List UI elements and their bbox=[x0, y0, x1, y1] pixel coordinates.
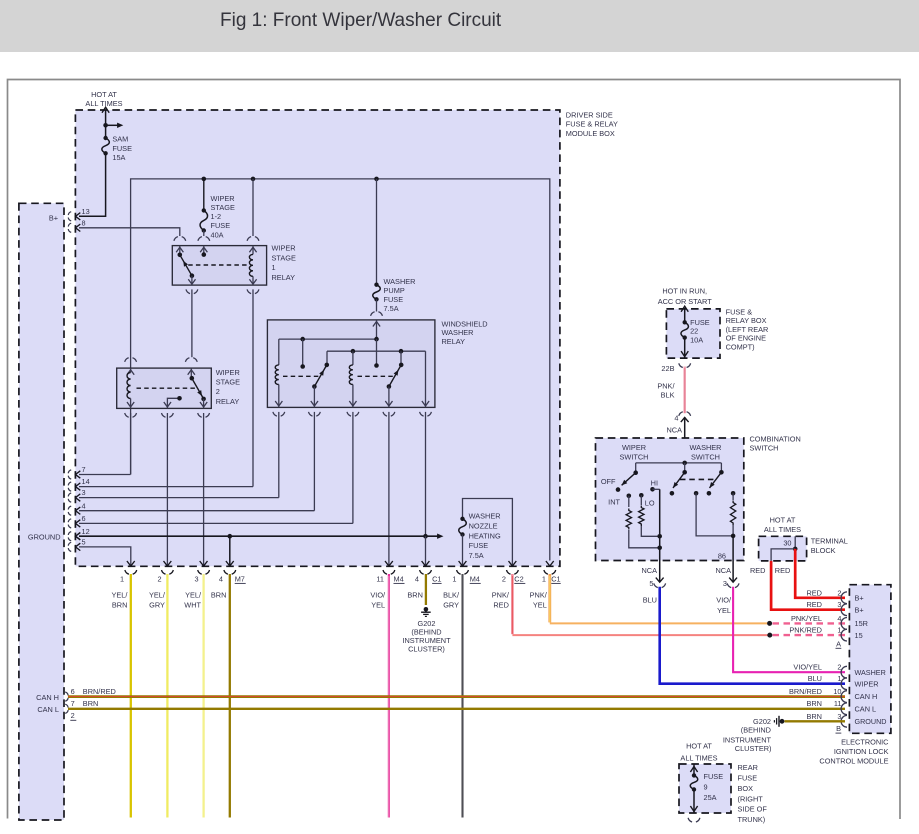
svg-text:HOT AT: HOT AT bbox=[770, 516, 796, 525]
fuse SAM FUSE 15A bbox=[102, 138, 110, 153]
washer gang dashed link bbox=[680, 478, 717, 480]
wire LO resistor to junction bbox=[641, 526, 659, 536]
connector arc pin 8 bbox=[68, 223, 71, 232]
svg-text:BLU: BLU bbox=[643, 595, 657, 604]
washer switch output wire bbox=[732, 536, 734, 561]
washer relay coil 1 bbox=[278, 339, 280, 365]
washer nozzle heating fuse bracket bbox=[463, 499, 513, 567]
svg-text:5: 5 bbox=[649, 579, 653, 588]
svg-text:PNK/RED: PNK/RED bbox=[789, 626, 822, 635]
relay1 pin A lead bbox=[179, 246, 181, 255]
terminal block internal wiring bbox=[794, 536, 796, 549]
svg-text:4: 4 bbox=[219, 575, 223, 584]
relay1 coil lead out arrow bbox=[249, 279, 256, 284]
svg-text:REAR: REAR bbox=[738, 763, 758, 772]
svg-text:(BEHIND: (BEHIND bbox=[741, 726, 771, 735]
svg-text:WINDSHIELD: WINDSHIELD bbox=[442, 319, 488, 328]
wire BRN to G202 bbox=[425, 574, 427, 605]
svg-text:CAN H: CAN H bbox=[855, 692, 878, 701]
electronic ignition lock control module box bbox=[849, 585, 891, 734]
connector arc pin 6 bbox=[68, 519, 71, 528]
svg-text:GRY: GRY bbox=[149, 601, 165, 610]
connector arc relay2 pole out bbox=[198, 413, 210, 417]
wire BLK/GRY (pin 1 M4) bbox=[461, 574, 463, 818]
connector arc pin 13 bbox=[68, 212, 71, 221]
svg-text:OF ENGINE: OF ENGINE bbox=[726, 334, 766, 343]
junction dot PNK/RED bbox=[767, 633, 772, 638]
svg-text:2: 2 bbox=[216, 387, 220, 396]
svg-text:G202: G202 bbox=[753, 717, 771, 726]
svg-text:M4: M4 bbox=[470, 575, 480, 584]
svg-text:86: 86 bbox=[718, 552, 726, 561]
svg-text:C2: C2 bbox=[514, 575, 523, 584]
svg-text:7: 7 bbox=[71, 699, 75, 708]
connector arc rear fuse box out bbox=[688, 818, 700, 822]
svg-text:YEL/: YEL/ bbox=[111, 590, 128, 599]
svg-text:SWITCH: SWITCH bbox=[691, 452, 720, 461]
svg-text:11: 11 bbox=[376, 575, 384, 584]
wire: top bus bbox=[131, 179, 550, 561]
wire: pin 3 row bbox=[79, 497, 279, 499]
svg-text:RELAY: RELAY bbox=[216, 397, 240, 406]
svg-text:WASHER: WASHER bbox=[442, 328, 474, 337]
driver side fuse & relay module box bbox=[75, 110, 560, 566]
washer relay coil 2 bbox=[352, 351, 354, 365]
svg-text:YEL/: YEL/ bbox=[185, 590, 202, 599]
module connector arcs bbox=[841, 592, 847, 604]
relay box WINDSHIELD WASHER RELAY bbox=[267, 320, 435, 408]
svg-text:4: 4 bbox=[837, 614, 841, 623]
svg-text:7.5A: 7.5A bbox=[384, 304, 399, 313]
wire YEL/BRN (pin 1) bbox=[130, 574, 132, 818]
junction dot on SAM feed bbox=[103, 123, 108, 128]
washer armature 2 bbox=[710, 472, 722, 488]
svg-text:PUMP: PUMP bbox=[384, 286, 405, 295]
arrowhead pin 4 bbox=[76, 507, 81, 514]
svg-text:BOX: BOX bbox=[738, 784, 754, 793]
terminal block box bbox=[759, 536, 807, 561]
svg-text:3: 3 bbox=[194, 575, 198, 584]
svg-text:WASHER: WASHER bbox=[469, 512, 501, 521]
wiper switch output wire bbox=[659, 489, 661, 560]
wire: pin 5 row to bottom pin 1 bbox=[79, 547, 131, 566]
svg-text:10: 10 bbox=[833, 687, 841, 696]
continuation arrow pin 12 row bbox=[437, 534, 443, 539]
relay2 pole lead out bbox=[203, 399, 205, 409]
junction dot stub on rail bbox=[300, 337, 305, 342]
svg-text:2: 2 bbox=[502, 575, 506, 584]
washer relay switch2 pole dot bbox=[387, 384, 392, 389]
washer contact dot middle bbox=[694, 491, 699, 496]
fuse WASHER PUMP FUSE 7.5A bbox=[373, 285, 381, 300]
washer relay feed rail upper bbox=[279, 338, 377, 340]
svg-text:NCA: NCA bbox=[666, 425, 682, 434]
wire resistor to output junction bbox=[732, 525, 734, 536]
svg-text:CLUSTER): CLUSTER) bbox=[408, 644, 445, 653]
svg-text:TRUNK): TRUNK) bbox=[738, 815, 766, 824]
svg-text:DRIVER SIDE: DRIVER SIDE bbox=[566, 111, 613, 120]
svg-text:FUSE &: FUSE & bbox=[726, 307, 753, 316]
svg-text:VIO/YEL: VIO/YEL bbox=[793, 663, 822, 672]
relay2 switch common dot bbox=[190, 376, 195, 381]
svg-text:RELAY: RELAY bbox=[442, 337, 466, 346]
svg-text:FUSE & RELAY: FUSE & RELAY bbox=[566, 120, 618, 129]
svg-text:BLK: BLK bbox=[661, 391, 675, 400]
svg-text:BRN: BRN bbox=[407, 590, 423, 599]
svg-text:3: 3 bbox=[82, 488, 86, 497]
connector arc relay2 middle out bbox=[162, 413, 174, 417]
fuse 9 lead in bbox=[693, 764, 695, 775]
wiper INT contact bbox=[627, 494, 632, 499]
junction dot feed/washer switch bbox=[682, 461, 687, 466]
center fixed contact bbox=[376, 339, 378, 365]
junction dot bus/fuse40A bbox=[202, 177, 207, 182]
svg-text:M4: M4 bbox=[394, 575, 404, 584]
fuse FUSE 9 25A bbox=[690, 775, 698, 789]
wire CAN H BRN/RED bbox=[68, 695, 845, 698]
svg-text:8: 8 bbox=[82, 218, 86, 227]
svg-text:C1: C1 bbox=[551, 575, 560, 584]
relay1 pin B lead bbox=[203, 246, 205, 255]
wire: washer relay pole2 to bottom pin 11 bbox=[388, 412, 390, 566]
svg-text:STAGE: STAGE bbox=[216, 378, 240, 387]
svg-text:ALL TIMES: ALL TIMES bbox=[85, 99, 122, 108]
connector arc relay2 coil out bbox=[125, 413, 137, 417]
svg-text:7.5A: 7.5A bbox=[469, 551, 484, 560]
wire: pin 6 row bbox=[79, 522, 353, 524]
washer relay switch2 pole out bbox=[388, 387, 390, 408]
svg-text:ACC OR START: ACC OR START bbox=[658, 297, 713, 306]
wire NCA into combination switch bbox=[684, 417, 686, 463]
svg-text:CAN L: CAN L bbox=[37, 705, 59, 714]
svg-text:CAN H: CAN H bbox=[36, 693, 59, 702]
svg-text:A: A bbox=[836, 639, 841, 648]
svg-text:BRN: BRN bbox=[806, 712, 822, 721]
junction dot INT output bbox=[657, 546, 662, 551]
wire: washer relay aux to pin 12 row bbox=[425, 412, 427, 536]
fuse WIPER STAGE 1-2 FUSE 40A bbox=[200, 210, 208, 230]
wire: washer relay coil2 to pin 6 row bbox=[352, 412, 354, 524]
svg-text:BRN/RED: BRN/RED bbox=[83, 687, 116, 696]
svg-text:HEATING: HEATING bbox=[469, 531, 501, 540]
wire: bus to wiper stage 1-2 fuse bbox=[203, 179, 205, 211]
wire: relay1 pole to wiper stage 2 relay bbox=[191, 289, 193, 357]
junction dot top pin/rail bbox=[374, 337, 379, 342]
svg-text:1: 1 bbox=[837, 626, 841, 635]
svg-text:WIPER: WIPER bbox=[622, 443, 646, 452]
svg-text:COMPT): COMPT) bbox=[726, 342, 755, 351]
svg-text:SIDE OF: SIDE OF bbox=[738, 805, 768, 814]
svg-text:25A: 25A bbox=[704, 793, 717, 802]
svg-text:15R: 15R bbox=[855, 619, 868, 628]
svg-text:YEL: YEL bbox=[533, 601, 547, 610]
rear fuse box bbox=[679, 764, 731, 813]
wire: fuse to washer relay bbox=[376, 299, 378, 311]
wire: pin 7 row bbox=[79, 474, 131, 476]
relay1 coil bbox=[252, 246, 254, 255]
svg-text:IGNITION LOCK: IGNITION LOCK bbox=[834, 747, 889, 756]
relay box WIPER STAGE 1 RELAY bbox=[172, 246, 266, 286]
svg-text:CAN L: CAN L bbox=[855, 705, 877, 714]
svg-text:YEL: YEL bbox=[717, 606, 731, 615]
bottom edge connector arcs bbox=[125, 570, 137, 574]
svg-text:YEL/: YEL/ bbox=[149, 590, 166, 599]
svg-text:1: 1 bbox=[120, 575, 124, 584]
washer relay switch2 feed bbox=[400, 351, 402, 365]
svg-text:SWITCH: SWITCH bbox=[750, 444, 779, 453]
svg-text:RELAY: RELAY bbox=[272, 273, 296, 282]
junction dot LO output bbox=[657, 534, 662, 539]
svg-text:HOT AT: HOT AT bbox=[91, 90, 117, 99]
svg-text:B: B bbox=[836, 724, 841, 733]
wire: pin 4 row bbox=[79, 510, 314, 512]
wire BRN (pin 4 M7) bbox=[229, 574, 231, 818]
svg-text:9: 9 bbox=[704, 783, 708, 792]
svg-text:SAM: SAM bbox=[112, 135, 128, 144]
relay2 pole dot bbox=[201, 397, 206, 402]
svg-text:SWITCH: SWITCH bbox=[620, 452, 649, 461]
wire: relay2 middle out to bottom pin 2 bbox=[166, 413, 168, 566]
svg-text:YEL: YEL bbox=[371, 601, 385, 610]
wire BRN module ground pin 3 bbox=[785, 720, 846, 722]
svg-text:40A: 40A bbox=[211, 230, 224, 239]
svg-text:LO: LO bbox=[645, 499, 655, 508]
svg-text:BRN: BRN bbox=[806, 699, 822, 708]
wire: pin 12 row (bold) bbox=[79, 535, 439, 537]
svg-text:WIPER: WIPER bbox=[216, 368, 240, 377]
svg-text:RED: RED bbox=[493, 601, 509, 610]
arrowhead pin 12 bbox=[76, 533, 81, 540]
combination switch box bbox=[596, 438, 744, 561]
connector arc pin 4 bbox=[68, 506, 71, 515]
svg-text:OFF: OFF bbox=[601, 477, 616, 486]
left connector module box (B+/GROUND/CAN) bbox=[19, 203, 64, 820]
wiper output lead to connector bbox=[659, 561, 661, 582]
wire: fuse to bottom pin 1 M4 bbox=[462, 535, 464, 567]
svg-text:RED: RED bbox=[806, 588, 822, 597]
svg-text:30: 30 bbox=[783, 539, 791, 548]
svg-text:WHT: WHT bbox=[184, 601, 201, 610]
branch arrow right bbox=[106, 124, 119, 126]
wire RED to module B+ pin 2 bbox=[795, 549, 845, 598]
connector arc wiper output pin 5 bbox=[656, 578, 664, 583]
fuse 9 lead out bbox=[693, 790, 695, 814]
svg-text:B+: B+ bbox=[49, 213, 58, 222]
svg-text:PNK/: PNK/ bbox=[657, 381, 675, 390]
svg-text:3: 3 bbox=[837, 712, 841, 721]
svg-text:GROUND: GROUND bbox=[855, 717, 887, 726]
ground G202 at module bbox=[780, 719, 785, 724]
svg-text:12: 12 bbox=[82, 527, 90, 536]
svg-text:STAGE: STAGE bbox=[272, 253, 296, 262]
connector arc relay1 coil pin bbox=[247, 237, 259, 241]
washer relay gang dashed link 1 bbox=[283, 375, 319, 377]
svg-text:(LEFT REAR: (LEFT REAR bbox=[726, 325, 769, 334]
washer contact dot left bbox=[670, 491, 675, 496]
svg-text:FUSE: FUSE bbox=[469, 541, 489, 550]
svg-text:BRN: BRN bbox=[211, 590, 227, 599]
connector arc pin 3 bbox=[68, 493, 71, 502]
washer relay gang dashed link 2 bbox=[358, 375, 394, 377]
svg-text:RED: RED bbox=[750, 566, 766, 575]
svg-text:MODULE BOX: MODULE BOX bbox=[566, 129, 615, 138]
wire PNK/RED (pin 2 C2) bbox=[511, 574, 514, 634]
washer resistor contact dot bbox=[731, 491, 736, 496]
wire CAN L BRN bbox=[68, 708, 845, 710]
connector arc relay1 pin A bbox=[174, 237, 186, 241]
svg-text:C1: C1 bbox=[432, 575, 441, 584]
svg-text:GRY: GRY bbox=[443, 601, 459, 610]
svg-text:WIPER: WIPER bbox=[211, 194, 235, 203]
svg-text:13: 13 bbox=[82, 207, 90, 216]
connector arc pin 5 bbox=[68, 542, 71, 551]
wire: fuse 40A to relay1 bbox=[203, 231, 205, 237]
svg-text:2: 2 bbox=[837, 588, 841, 597]
relay1 gang dashed link bbox=[188, 264, 247, 266]
washer relay top pin lead bbox=[376, 320, 378, 339]
junction dot pin12/bottom pin4 bbox=[228, 534, 233, 539]
washer relay right rail drop bbox=[425, 351, 427, 407]
junction dot bus/relay1 coil bbox=[251, 177, 256, 182]
wire: washer relay coil1 to pin 3 row bbox=[278, 412, 280, 498]
washer relay switch1 feed bbox=[326, 351, 328, 365]
svg-text:PNK/: PNK/ bbox=[492, 590, 510, 599]
svg-text:NCA: NCA bbox=[715, 566, 731, 575]
wire: pin12 dot down to bottom pin 4 M7 bbox=[229, 536, 231, 566]
connector arc relay1 coil out bbox=[247, 289, 259, 293]
svg-text:(RIGHT: (RIGHT bbox=[738, 794, 764, 803]
svg-text:BRN/RED: BRN/RED bbox=[789, 687, 822, 696]
connector arc washer output pin 3 bbox=[729, 578, 737, 583]
svg-text:Fig 1: Front Wiper/Washer Circ: Fig 1: Front Wiper/Washer Circuit bbox=[220, 10, 502, 31]
junction dot rail/switch2 bbox=[399, 349, 404, 354]
svg-text:22: 22 bbox=[690, 327, 698, 336]
connector arc pin 14 bbox=[68, 482, 71, 491]
relay2 gang dashed link bbox=[137, 387, 196, 389]
dashed wire PNK/RED to module 15 bbox=[773, 634, 846, 636]
svg-text:ALL TIMES: ALL TIMES bbox=[680, 753, 717, 762]
svg-text:WASHER: WASHER bbox=[384, 277, 416, 286]
wiper OFF contact dot bbox=[616, 487, 621, 492]
connector arc pin 12 bbox=[68, 532, 71, 541]
svg-text:TERMINAL: TERMINAL bbox=[811, 536, 848, 545]
svg-text:ELECTRONIC: ELECTRONIC bbox=[841, 738, 889, 747]
svg-text:VIO/: VIO/ bbox=[716, 595, 732, 604]
svg-text:3: 3 bbox=[723, 579, 727, 588]
svg-text:6: 6 bbox=[82, 514, 86, 523]
ground G202 (behind instrument cluster) bbox=[424, 607, 429, 612]
svg-text:4: 4 bbox=[82, 501, 86, 510]
svg-text:NOZZLE: NOZZLE bbox=[469, 522, 498, 531]
washer resistor feed bbox=[732, 493, 734, 500]
svg-text:PNK/: PNK/ bbox=[530, 590, 548, 599]
wire PNK/YEL (pin 1 C1) bbox=[548, 574, 551, 622]
relay1 pin A dot bbox=[178, 253, 183, 258]
arrowhead pin 5 bbox=[76, 543, 81, 550]
svg-text:VIO/: VIO/ bbox=[370, 590, 386, 599]
washer contact dot right bbox=[707, 491, 712, 496]
svg-text:FUSE: FUSE bbox=[211, 221, 231, 230]
relay1 pole lead out bbox=[191, 276, 193, 285]
svg-text:4: 4 bbox=[674, 413, 678, 422]
wiper switch armature (OFF position) bbox=[622, 473, 636, 486]
arrowhead pin 14 bbox=[76, 483, 81, 490]
svg-text:WIPER: WIPER bbox=[855, 680, 879, 689]
svg-text:7: 7 bbox=[82, 465, 86, 474]
fuse & relay box (left rear of engine compt) bbox=[666, 309, 720, 358]
svg-text:B+: B+ bbox=[855, 606, 864, 615]
washer output lead to connector bbox=[732, 561, 734, 582]
svg-text:B+: B+ bbox=[855, 594, 864, 603]
svg-text:10A: 10A bbox=[690, 336, 703, 345]
wire YEL/GRY (pin 2) bbox=[166, 574, 168, 818]
wire: SAM fuse to pin 13 bbox=[79, 153, 106, 216]
svg-text:15: 15 bbox=[855, 631, 863, 640]
svg-text:GROUND: GROUND bbox=[28, 532, 61, 541]
svg-text:FUSE: FUSE bbox=[384, 295, 404, 304]
svg-text:BLOCK: BLOCK bbox=[811, 546, 836, 555]
svg-text:1: 1 bbox=[272, 263, 276, 272]
washer switch common lead bbox=[684, 463, 686, 472]
svg-text:11: 11 bbox=[834, 699, 842, 708]
wiper switch common lead bbox=[635, 463, 637, 473]
svg-text:5: 5 bbox=[82, 538, 86, 547]
svg-text:RED: RED bbox=[806, 600, 822, 609]
svg-text:COMBINATION: COMBINATION bbox=[750, 435, 801, 444]
svg-text:BRN: BRN bbox=[112, 601, 128, 610]
junction dot bus/washer pump fuse bbox=[374, 177, 379, 182]
svg-text:4: 4 bbox=[415, 575, 419, 584]
svg-text:14: 14 bbox=[82, 477, 90, 486]
arrowhead at pin 13 bbox=[76, 213, 81, 220]
svg-text:HI: HI bbox=[651, 479, 658, 488]
wire: bus to relay1 coil bbox=[252, 179, 254, 236]
junction dot rail/coil2 bbox=[351, 349, 356, 354]
svg-text:FUSE: FUSE bbox=[704, 772, 724, 781]
relay2 middle contact bbox=[167, 398, 179, 408]
connector arc relay1 pole out bbox=[186, 289, 198, 293]
svg-text:1: 1 bbox=[452, 575, 456, 584]
page header bar bbox=[0, 0, 919, 52]
relay2 armature bbox=[192, 378, 204, 399]
dashed wire PNK/YEL to module 15R bbox=[773, 622, 846, 624]
svg-text:2: 2 bbox=[157, 575, 161, 584]
arrowhead pin 7 bbox=[76, 471, 81, 478]
fuse WASHER NOZZLE HEATING FUSE 7.5A bbox=[459, 519, 467, 535]
wire VIO/YEL to module WASHER pin bbox=[733, 587, 845, 672]
svg-text:BLK/: BLK/ bbox=[443, 590, 460, 599]
wire PNK/BLK bbox=[683, 367, 686, 414]
svg-text:INT: INT bbox=[608, 497, 620, 506]
connector arc relay2 coil pin (top) bbox=[125, 358, 137, 362]
svg-text:1-2: 1-2 bbox=[211, 212, 222, 221]
wire: bus to washer pump fuse bbox=[376, 179, 378, 285]
arrowhead pin 6 bbox=[76, 520, 81, 527]
connector arc fuse box out bbox=[679, 363, 691, 367]
svg-text:2: 2 bbox=[71, 711, 75, 720]
connector arc relay2 switch pin bbox=[185, 358, 197, 362]
wire: pin 14 row bbox=[79, 486, 253, 488]
resistor INT bbox=[626, 509, 631, 530]
wire: relay1 coil to pin 14 bbox=[252, 289, 254, 486]
wire: pin12 dot down to bottom pin 4 C1 bbox=[425, 536, 427, 566]
relay2 coil bbox=[130, 368, 132, 372]
wire: relay2 coil out to pin 7 corner bbox=[130, 413, 132, 475]
wire middle contact to output bbox=[696, 493, 733, 536]
stub to left contact bbox=[302, 339, 304, 366]
connector arc relay1 pin B bbox=[198, 237, 210, 241]
svg-text:FUSE: FUSE bbox=[690, 318, 710, 327]
